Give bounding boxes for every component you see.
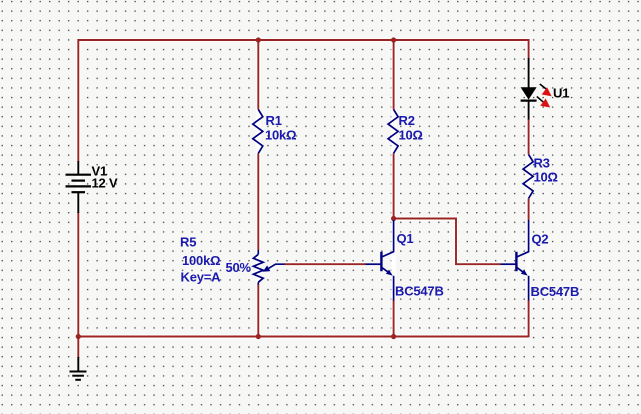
svg-text:Q1: Q1 [397,231,414,246]
battery V1 [66,161,92,213]
resistor R2 [388,110,398,154]
wire Q1 collector to Q2 base (step) [394,219,501,265]
wire Q2 emitter to bottom bus [528,300,530,337]
svg-text:R5: R5 [180,235,196,250]
svg-text:12 V: 12 V [92,176,118,191]
svg-text:U1: U1 [553,86,569,101]
wire R2 top [393,40,395,110]
wire R1 top [257,40,259,110]
wire R5 to bottom bus [257,284,259,337]
node junction bottom left [76,334,81,339]
svg-text:BC547B: BC547B [531,284,580,299]
resistor R3 [523,155,533,199]
wire halo backgrounds [78,40,528,358]
node junction top R1 [256,37,261,42]
svg-text:50%: 50% [226,260,252,275]
wire bottom bus [78,336,528,338]
svg-text:10kΩ: 10kΩ [265,128,296,143]
transistor Q1 [366,220,394,301]
wire Q1 emitter to bottom bus [393,300,395,337]
svg-text:Key=A: Key=A [181,270,222,285]
svg-text:R1: R1 [266,113,282,128]
svg-text:R3: R3 [534,156,550,171]
node junction bottom Q1 [391,334,396,339]
wire ground stem upper [77,336,79,358]
wire top bus [78,40,528,162]
node junction Q1 collector [391,216,396,221]
LED U1 emission arrow 2 [537,97,550,108]
wire LED to R3 [528,119,530,155]
svg-text:10Ω: 10Ω [399,128,423,143]
wire R2 to Q1 collector [393,153,395,220]
svg-text:BC547B: BC547B [395,284,444,299]
LED U1 emission arrow 1 [540,84,552,96]
node junction top R2 [391,37,396,42]
svg-text:10Ω: 10Ω [534,170,558,185]
resistor R1 [253,110,263,154]
potentiometer R5 wiper arrow [263,264,285,272]
wire R3 to Q2 collector [528,198,530,220]
svg-text:100kΩ: 100kΩ [182,253,220,268]
wire battery negative down to bottom bus [77,212,79,337]
svg-text:R2: R2 [399,113,415,128]
ground [70,357,87,380]
potentiometer R5 body [253,250,263,285]
LED U1 [521,58,537,120]
wire R5 wiper to Q1 base [284,263,366,265]
node junction bottom R5 [256,334,261,339]
svg-text:Q2: Q2 [532,232,549,247]
transistor Q2 [501,220,529,301]
wire R1 to R5 [257,153,259,250]
